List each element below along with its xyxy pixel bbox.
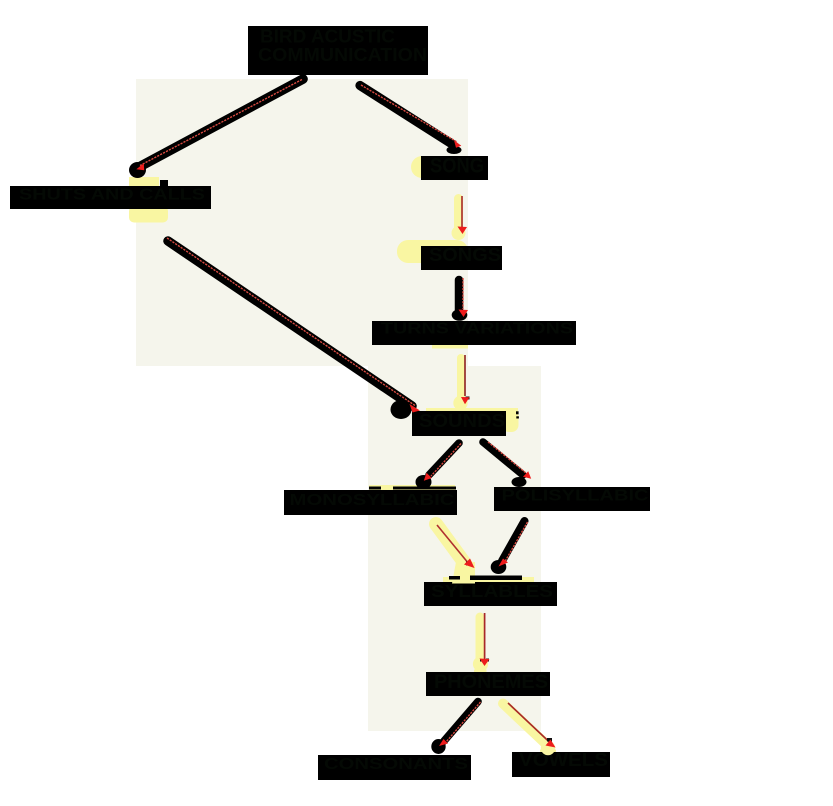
svg-text:SHUTS AND CALLS: SHUTS AND CALLS xyxy=(19,187,205,204)
arrow TITLE to SONG xyxy=(360,85,462,154)
svg-text:PHONEMES: PHONEMES xyxy=(434,671,548,693)
box POLISYLLABIC xyxy=(494,487,650,511)
black bar left above box MONOSYLLABIC xyxy=(369,487,381,490)
notch above box SHUTS AND CALLS xyxy=(160,180,168,186)
box PHONEMES xyxy=(426,671,550,696)
notch right of box SOUNDS xyxy=(516,411,519,414)
black bar left above box SYLLABLES xyxy=(449,576,460,580)
svg-text:SOUNDS: SOUNDS xyxy=(419,411,505,431)
highlight behind box SONGS xyxy=(397,240,468,263)
arrow SHUTS AND CALLS to SOUNDS (long) xyxy=(167,238,420,419)
svg-text:CONSONANTS: CONSONANTS xyxy=(324,756,468,773)
highlight below box TURNS VARIATIONS xyxy=(432,345,468,349)
panel lower gray xyxy=(368,366,541,731)
highlight strip above box MONOSYLLABIC xyxy=(369,485,455,492)
highlight right of box SOUNDS xyxy=(502,409,519,433)
arrow SONGS to TURNS VARIATIONS xyxy=(452,278,468,321)
black bar right above box MONOSYLLABIC xyxy=(393,487,456,490)
box CONSONANTS xyxy=(318,755,471,780)
highlight above box SYLLABLES xyxy=(443,577,534,584)
svg-text:POLISYLLABIC: POLISYLLABIC xyxy=(502,488,649,505)
arrow PHONEMES to VOWELS (yellow) xyxy=(503,703,556,755)
svg-text:SONGS: SONGS xyxy=(429,245,501,265)
svg-text:SYLLABLES: SYLLABLES xyxy=(431,581,553,601)
box SOUNDS xyxy=(412,411,506,436)
box MONOSYLLABIC xyxy=(284,490,457,515)
highlight above box SOUNDS xyxy=(426,408,518,414)
highlight left of box SONG xyxy=(411,156,433,178)
box VOWELS xyxy=(512,750,610,777)
arrow TITLE to SHUTS AND CALLS xyxy=(129,79,303,178)
highlight notch above box PHONEMES xyxy=(474,670,487,673)
svg-text:MONOSYLLABIC: MONOSYLLABIC xyxy=(290,492,456,509)
svg-text:BIRD ACUSTIC: BIRD ACUSTIC xyxy=(260,27,395,47)
arrow POLISYLLABIC to SYLLABLES xyxy=(491,521,528,574)
box SONGS xyxy=(421,245,502,270)
arrow SOUNDS to MONOSYLLABIC xyxy=(416,443,462,489)
highlight notch above box VOWELS xyxy=(540,750,556,753)
box TURNS VARIATIONS xyxy=(372,321,576,346)
svg-text:SONG: SONG xyxy=(430,155,484,178)
box SONG xyxy=(421,155,488,181)
arrow SONG to SONGS (yellow) xyxy=(452,196,468,240)
highlight below box SHUTS AND CALLS xyxy=(129,206,168,223)
arrow SOUNDS to POLISYLLABIC xyxy=(483,442,531,487)
svg-text:COMMUNICATION: COMMUNICATION xyxy=(258,45,427,65)
svg-text:TURNS VARIATIONS: TURNS VARIATIONS xyxy=(381,321,573,338)
arrow PHONEMES to CONSONANTS xyxy=(431,702,480,755)
box SYLLABLES xyxy=(424,581,557,606)
svg-text:VOWELS: VOWELS xyxy=(519,750,608,770)
panel upper gray xyxy=(136,79,468,366)
arrow TURNS VARIATIONS to SOUNDS (yellow) xyxy=(453,355,469,410)
black bar right above box SYLLABLES xyxy=(470,576,522,581)
arrow MONOSYLLABIC to SYLLABLES (yellow) xyxy=(436,524,475,584)
highlight above box SHUTS AND CALLS xyxy=(129,177,159,187)
arrow SYLLABLES to PHONEMES (yellow) xyxy=(473,613,490,672)
box TITLE xyxy=(248,26,428,75)
box SHUTS AND CALLS xyxy=(10,186,211,209)
